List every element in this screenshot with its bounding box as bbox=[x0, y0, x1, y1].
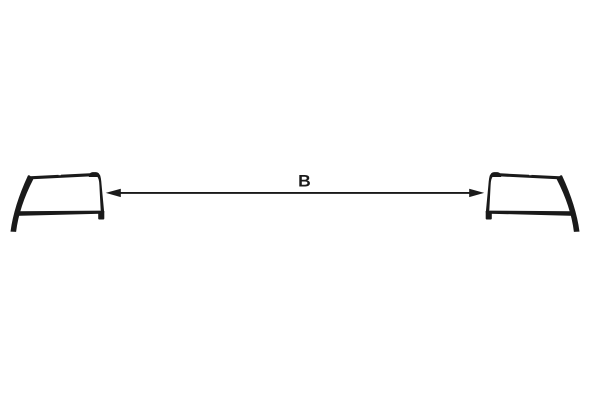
dimension arrow shaft bbox=[116, 192, 474, 194]
right rail frame (mirror) bbox=[486, 172, 580, 232]
right arrowhead bbox=[469, 189, 484, 197]
left arrowhead bbox=[106, 189, 121, 197]
left rail frame bbox=[11, 172, 105, 232]
svg-text:B: B bbox=[298, 172, 311, 190]
